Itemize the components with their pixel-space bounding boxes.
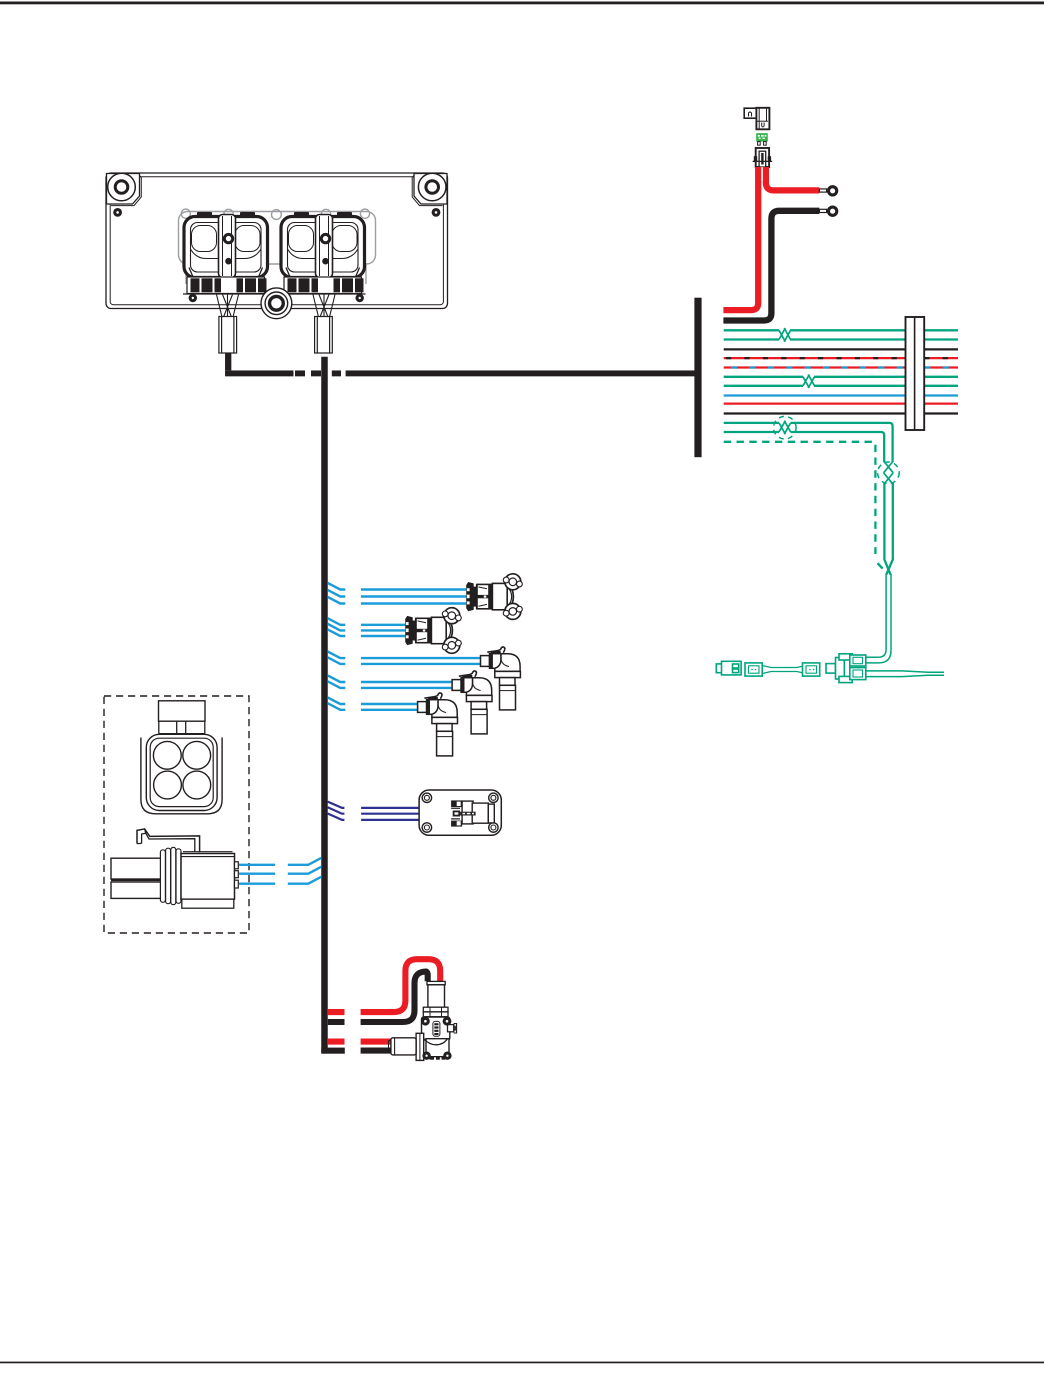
ECM center grommet [261, 288, 292, 319]
wire red pump feed lower [328, 1039, 392, 1045]
4-pin connector face view [141, 701, 222, 814]
fuel pump flange [423, 1007, 448, 1017]
pump body bolts [421, 1017, 452, 1060]
wire teal 2 [724, 338, 958, 340]
pump connector barrel [389, 1038, 417, 1055]
ring terminal 1 (red wire) [819, 185, 838, 196]
ECM connector B top tabs [294, 212, 352, 217]
splice on teal pair 2 [803, 375, 815, 389]
wire blue 8 [724, 394, 958, 396]
ECM connector A pin row [183, 277, 269, 294]
page top rule [0, 2, 1044, 5]
fuse F1 (green) [756, 133, 768, 145]
wire group 3 (2 blue) to temp sensor 1 [328, 652, 481, 664]
white separation between red wires [761, 167, 763, 181]
ECM harness bundle B [313, 295, 335, 318]
circled splice on teal pair 11/12 [774, 416, 797, 439]
wire black pump lower [361, 1048, 392, 1054]
wire main bus horizontal [225, 370, 694, 376]
harness bus bar right [694, 298, 701, 458]
wire teal 7 [724, 385, 958, 387]
wire teal 11 [724, 423, 893, 462]
ECM module body [106, 173, 448, 309]
wire teal 13 dashed [724, 442, 884, 570]
wire black 10 [724, 412, 958, 414]
ECM connector B base screw [356, 294, 364, 302]
ECM mount bolt top-left [108, 173, 136, 201]
fuel pump lower body [424, 1039, 449, 1060]
fuel pump top cylinder [427, 981, 445, 1007]
wire black 3 [724, 348, 958, 350]
wire group 7 (3 blue) from option connector [239, 858, 321, 884]
twisted splice vertical (teal) [878, 462, 900, 485]
ring terminal 2 (black wire) [819, 206, 838, 217]
wire group 2 (3 blue) to cam sensor 2 [328, 618, 406, 636]
ECM connector B center strap [316, 215, 333, 278]
wire group 6 (3 navy) to MAP sensor [328, 802, 451, 820]
fuel pump coupling [416, 1033, 424, 1060]
connector side view with lever [111, 829, 238, 908]
ECM mount ear top-right [412, 174, 447, 206]
wire group 1 (3 blue) to cam sensor 1 [328, 583, 467, 604]
wire teal pair down to merge [884, 483, 892, 575]
ECM mount ear top-left [107, 174, 142, 206]
bulkhead connector [906, 317, 925, 430]
wire red pump feed upper [328, 959, 440, 1012]
ECM connector B shell [281, 217, 365, 278]
wire red battery feed (fuse to bus) [723, 167, 758, 310]
ECM connector B taper [286, 268, 360, 278]
page bottom rule [0, 1362, 1044, 1364]
ECM connector A taper [189, 268, 263, 278]
ECM connector B pin row [280, 277, 366, 294]
ECM harness sleeve B [315, 317, 333, 354]
diagnostic plug small [716, 661, 741, 675]
T-connector body [826, 654, 852, 683]
wire black pump upper [328, 972, 428, 1022]
ECM harness bundle A [217, 295, 239, 318]
T-connector plug lower [850, 668, 866, 680]
wire group 4 (2 blue) to temp sensor 2 [328, 675, 453, 688]
fuse holder cap [744, 108, 769, 130]
fuse holder base [753, 148, 773, 167]
wire main trunk vertical [321, 357, 328, 1053]
wire teal 6 [724, 376, 958, 378]
ECM connector A shell [184, 217, 268, 278]
cam sensor 2 [405, 608, 461, 654]
ECM connector A base screw [189, 294, 197, 302]
wire red 9 [724, 402, 958, 404]
ECM connector seal boot (gray) [179, 209, 376, 284]
fuel pump main body [422, 1017, 450, 1040]
MAP sensor connector [451, 800, 494, 826]
wire red/black 4 [724, 357, 958, 359]
ECM connector A top tabs [197, 212, 255, 217]
trunk foot [321, 1048, 345, 1054]
dashed option box [104, 696, 249, 933]
ECM screw right [432, 208, 441, 217]
terminator cable assembly [745, 663, 820, 676]
temp sensor 2 [452, 671, 492, 734]
T-connector plug upper [850, 655, 866, 666]
wire red fused branch to ring terminal [766, 167, 819, 190]
cam sensor 1 [466, 574, 522, 620]
teal cable sleeve down [866, 574, 891, 663]
wire teal 1 [724, 329, 958, 331]
MAP sensor plate [419, 790, 501, 835]
ECM mount bolt top-right [418, 173, 446, 201]
ECM harness sleeve A [219, 317, 237, 354]
wire black ground to ring terminal [723, 211, 819, 321]
wire group 5 (2 blue) to temp sensor 3 [328, 697, 419, 709]
fuel pump side fitting [448, 1024, 457, 1033]
teal stub cable right [866, 671, 944, 677]
temp sensor 3 [418, 693, 458, 756]
wire ECM-A drop [225, 354, 231, 371]
ECM connector A center strap [219, 215, 236, 278]
splice on teal pair 1 [779, 328, 791, 342]
temp sensor 1 [481, 647, 521, 710]
ECM screw left [113, 208, 122, 217]
wire red/blue 5 [724, 366, 958, 368]
wire teal 12 [724, 432, 885, 462]
